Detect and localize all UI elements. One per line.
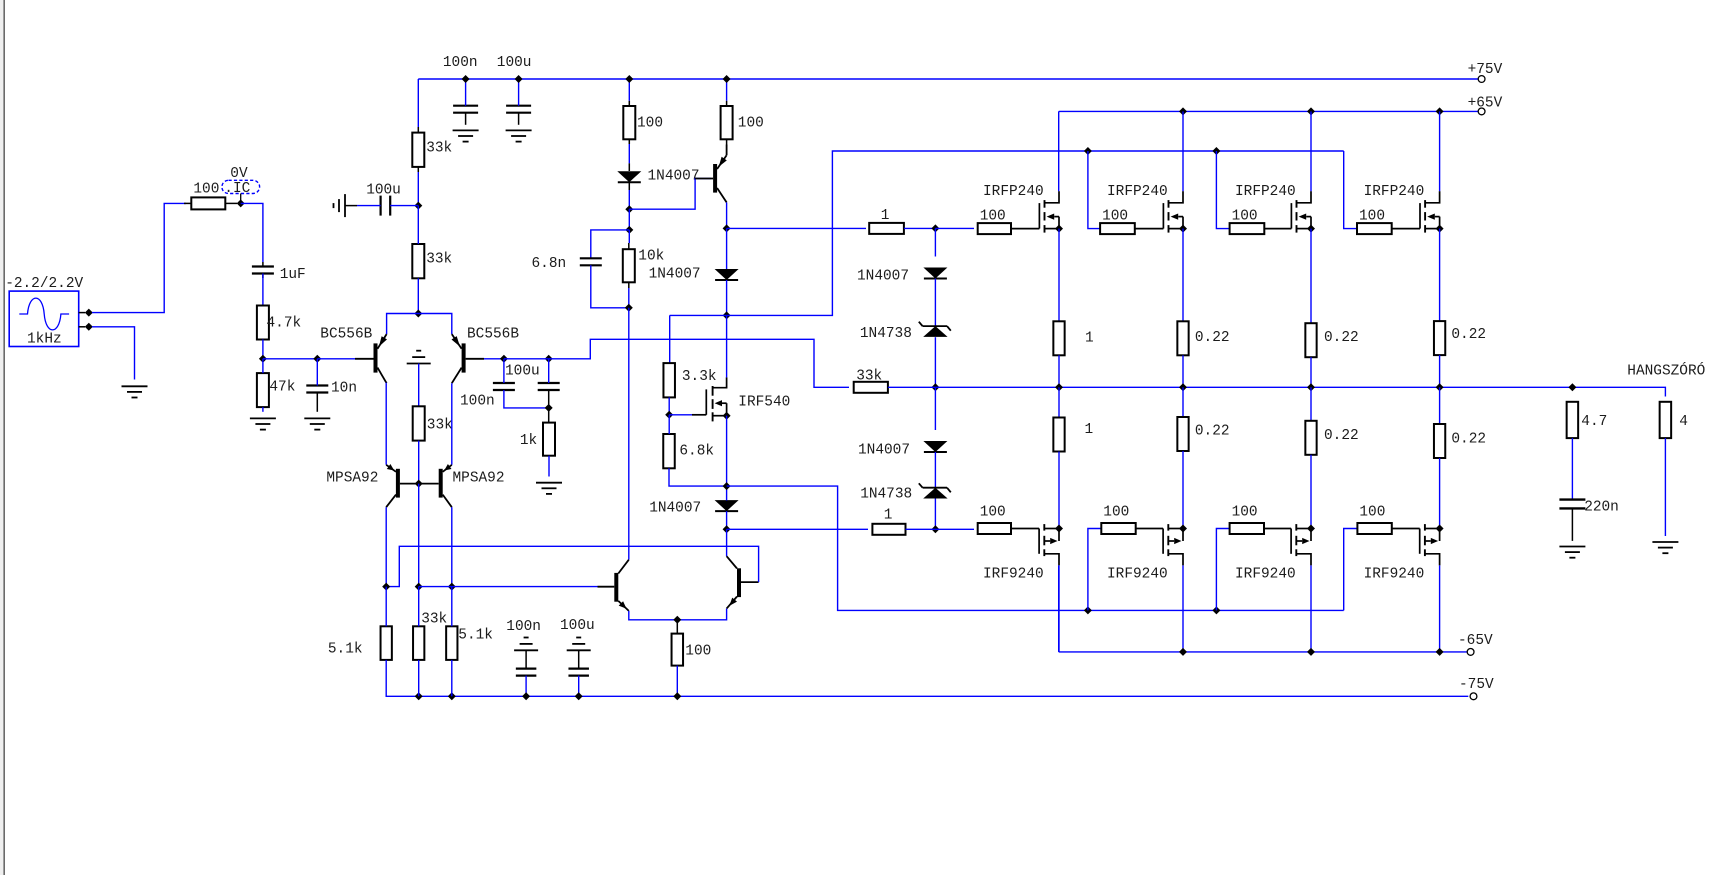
wire node down bbox=[628, 209, 630, 230]
capacitor 100n fb bbox=[538, 382, 560, 384]
capacitor 100n rail bbox=[453, 105, 478, 107]
resistor 4.7 bbox=[1567, 402, 1579, 438]
junction bbox=[665, 411, 673, 419]
wire source to res bbox=[1058, 229, 1060, 322]
transistor Q6 NPN left bbox=[614, 573, 618, 602]
resistor 0.22 source upper #3 bbox=[1305, 323, 1316, 357]
junction bbox=[1436, 648, 1444, 656]
junction bbox=[723, 75, 731, 83]
wire gate bias upper bbox=[1216, 151, 1229, 229]
wire string to 100 lower bbox=[935, 528, 974, 530]
wire base row to Q6 bbox=[419, 586, 598, 588]
svg-text:100: 100 bbox=[980, 209, 1006, 225]
transistor Q3 MPSA92 left bbox=[396, 469, 400, 498]
svg-text:100n: 100n bbox=[460, 393, 495, 409]
svg-text:IRFP240: IRFP240 bbox=[1235, 184, 1296, 200]
junction bbox=[625, 205, 633, 213]
svg-text:33k: 33k bbox=[856, 368, 882, 384]
transistor Q1 BC556B left bbox=[374, 343, 378, 372]
resistor 100 gate lower bbox=[1101, 523, 1135, 534]
resistor 100 a bbox=[623, 106, 635, 139]
svg-text:1: 1 bbox=[1085, 330, 1094, 346]
wire 5.1k drop bbox=[451, 660, 453, 696]
svg-text:.IC: .IC bbox=[224, 181, 250, 197]
wire 100 to -75 rail bbox=[676, 666, 678, 697]
junction bbox=[723, 412, 731, 420]
junction bbox=[414, 310, 422, 318]
svg-text:100: 100 bbox=[1232, 505, 1258, 521]
zener 1N4738 upper bbox=[923, 326, 947, 337]
svg-text:0.22: 0.22 bbox=[1195, 330, 1230, 346]
wire +65V drop bbox=[1310, 111, 1312, 191]
svg-text:6.8n: 6.8n bbox=[532, 256, 567, 272]
wire 33k drop bbox=[418, 660, 420, 696]
wire drain to -65V bbox=[1058, 565, 1060, 652]
junction bbox=[1307, 383, 1315, 391]
wire string seg2 bbox=[934, 279, 936, 327]
transistor U1 IRF540 bbox=[705, 389, 707, 414]
resistor 3.3k bbox=[663, 363, 675, 397]
svg-text:IRF9240: IRF9240 bbox=[1107, 567, 1168, 583]
transistor Q4 MPSA92 right bbox=[439, 469, 443, 498]
junction bbox=[931, 525, 939, 533]
junction bbox=[723, 224, 731, 232]
capacitor 100u fb bbox=[493, 382, 515, 384]
svg-text:0.22: 0.22 bbox=[1324, 330, 1359, 346]
junction bbox=[259, 355, 267, 363]
svg-text:0.22: 0.22 bbox=[1451, 431, 1486, 447]
wire 3.3k to gate node bbox=[668, 397, 670, 414]
ground sideways bbox=[344, 194, 346, 217]
mosfet IRF9240 #2 bbox=[1135, 528, 1163, 530]
svg-text:-75V: -75V bbox=[1459, 677, 1494, 693]
resistor 100 gate1 low bbox=[978, 523, 1011, 534]
junction bbox=[545, 355, 553, 363]
svg-text:4: 4 bbox=[1679, 414, 1688, 430]
wire node to fb bbox=[504, 358, 549, 360]
wire bias tap up bbox=[727, 151, 1344, 315]
svg-text:47k: 47k bbox=[269, 379, 295, 395]
svg-text:1kHz: 1kHz bbox=[27, 332, 62, 348]
svg-text:IRF9240: IRF9240 bbox=[1364, 567, 1425, 583]
svg-text:0.22: 0.22 bbox=[1324, 428, 1359, 444]
capacitor 220n bbox=[1559, 498, 1585, 500]
mosfet IRF9240 #1 bbox=[1011, 528, 1039, 530]
junction bbox=[415, 583, 423, 591]
wire +65V drop bbox=[1439, 111, 1441, 191]
wire drain to -65V bbox=[1439, 565, 1441, 652]
svg-text:3.3k: 3.3k bbox=[682, 369, 717, 385]
capacitor 100u bottom bbox=[576, 637, 581, 639]
svg-text:1N4007: 1N4007 bbox=[858, 443, 910, 459]
wire 10k to node bbox=[628, 288, 630, 308]
resistor 1k bbox=[543, 423, 555, 456]
svg-text:1N4738: 1N4738 bbox=[860, 326, 912, 342]
resistor 100 b bbox=[721, 106, 733, 139]
junction bbox=[414, 202, 422, 210]
wire gate bias lower bbox=[1344, 529, 1358, 611]
resistor 10k bbox=[623, 249, 635, 282]
junction bbox=[673, 692, 681, 700]
resistor 100 gate upper bbox=[1357, 223, 1392, 234]
svg-text:IRF9240: IRF9240 bbox=[983, 567, 1044, 583]
mosfet IRF9240 #4 bbox=[1392, 528, 1420, 530]
wire Q3 collector down bbox=[385, 507, 387, 586]
wire Q7 base loop bbox=[386, 546, 758, 586]
svg-text:100: 100 bbox=[980, 505, 1006, 521]
wire +65V rail bbox=[1059, 110, 1479, 112]
junction bbox=[1436, 107, 1444, 115]
wire rail to res low bbox=[1439, 387, 1441, 424]
wire base row to BC556B bbox=[317, 358, 355, 360]
resistor 33k mid bbox=[413, 406, 425, 440]
wire rail to 100 a bbox=[628, 79, 630, 101]
junction bbox=[448, 692, 456, 700]
svg-text:IRFP240: IRFP240 bbox=[1364, 184, 1425, 200]
resistor 5.1k right bbox=[446, 626, 457, 660]
svg-text:-65V: -65V bbox=[1458, 633, 1493, 649]
junction bbox=[625, 226, 633, 234]
diode 1N4007 string up bbox=[923, 268, 947, 279]
wire 47k to ground bbox=[262, 407, 264, 412]
junction bbox=[1084, 606, 1092, 614]
svg-text:100: 100 bbox=[738, 116, 764, 132]
capacitor 100n bottom bbox=[524, 637, 529, 639]
wire res low to mosfet bbox=[1058, 452, 1060, 529]
wire 100a to diode bbox=[628, 144, 630, 163]
resistor 0.22 source lower #4 bbox=[1434, 424, 1445, 458]
wire 1 to string lower bbox=[906, 528, 936, 530]
wire 100u to 1k node bbox=[504, 390, 549, 408]
voltage source V1 1kHz bbox=[9, 291, 79, 346]
wire drain to -65V bbox=[1310, 565, 1312, 652]
ground 10n bbox=[304, 417, 330, 419]
resistor 100 input bbox=[191, 197, 225, 209]
junction bbox=[575, 692, 583, 700]
junction bbox=[415, 480, 423, 488]
wire string seg4 bbox=[934, 387, 936, 430]
wire 10k node down to driver bbox=[628, 308, 630, 560]
wire VAS to 1 bbox=[727, 227, 866, 229]
resistor 33k lower bbox=[412, 244, 424, 278]
svg-text:100n: 100n bbox=[506, 619, 541, 635]
svg-text:BC556B: BC556B bbox=[467, 326, 519, 342]
svg-text:IRF540: IRF540 bbox=[738, 395, 790, 411]
junction bbox=[625, 304, 633, 312]
svg-text:100: 100 bbox=[1359, 505, 1385, 521]
wire +65V drop1 bbox=[1058, 111, 1060, 191]
wire string to 100 bbox=[935, 227, 974, 229]
junction bbox=[931, 224, 939, 232]
svg-text:100: 100 bbox=[1103, 505, 1129, 521]
svg-text:100: 100 bbox=[1102, 209, 1128, 225]
svg-text:100u: 100u bbox=[366, 182, 401, 198]
wire 33k to bases bbox=[418, 441, 420, 484]
svg-text:0.22: 0.22 bbox=[1195, 423, 1230, 439]
wire string seg5 bbox=[934, 452, 936, 488]
svg-text:4.7: 4.7 bbox=[1581, 414, 1607, 430]
junction bbox=[522, 692, 530, 700]
wire emitter bus bbox=[629, 609, 727, 620]
wire string seg3 bbox=[934, 337, 936, 387]
wire 33k to bias node bbox=[417, 172, 419, 206]
svg-text:MPSA92: MPSA92 bbox=[453, 470, 505, 486]
junction bbox=[625, 75, 633, 83]
wire +75V rail bbox=[418, 78, 1478, 80]
junction bbox=[1055, 383, 1063, 391]
wire feedback bbox=[549, 339, 849, 387]
wire 100 to gate1 bbox=[1010, 228, 1012, 230]
svg-text:33k: 33k bbox=[426, 141, 452, 157]
mosfet IRFP240 #2 bbox=[1162, 203, 1164, 229]
wire 6.8n top bbox=[591, 230, 630, 258]
mosfet IRFP240 #1 bbox=[1038, 203, 1040, 229]
terminal +65V bbox=[1478, 108, 1485, 115]
wire diode to node bbox=[628, 190, 630, 209]
svg-text:+65V: +65V bbox=[1468, 96, 1503, 112]
wire 3.3k drop bbox=[669, 315, 671, 363]
svg-text:-2.2/2.2V: -2.2/2.2V bbox=[5, 276, 83, 292]
svg-text:100: 100 bbox=[193, 181, 219, 197]
resistor 0.22 source upper #2 bbox=[1177, 321, 1188, 355]
capacitor 100u bias bbox=[380, 196, 382, 216]
resistor 33k upper bbox=[412, 133, 424, 167]
resistor 33k fb bbox=[854, 382, 888, 393]
terminal -65V bbox=[1467, 649, 1474, 656]
svg-text:MPSA92: MPSA92 bbox=[326, 470, 378, 486]
wire drain to -65V bbox=[1182, 565, 1184, 652]
resistor 100 gate lower bbox=[1357, 523, 1391, 534]
wire rail to res low bbox=[1182, 387, 1184, 417]
wire bias tap down bbox=[727, 486, 1344, 610]
wire 4.7 to 220n bbox=[1571, 438, 1573, 500]
wire 1 to string bbox=[904, 227, 936, 229]
wire +75V rail left drop bbox=[417, 79, 419, 127]
wire gate bias upper bbox=[1088, 151, 1100, 229]
svg-text:1uF: 1uF bbox=[280, 267, 306, 283]
wire string seg6 bbox=[934, 499, 936, 530]
wire rail to 100b bbox=[726, 79, 728, 101]
wire 1uF to 4.7k bbox=[262, 274, 264, 306]
junction bbox=[1436, 383, 1444, 391]
wire res to rail bbox=[1058, 355, 1060, 387]
wire Q2 collector down bbox=[451, 383, 453, 465]
wire input node down bbox=[241, 203, 263, 262]
ground 4 bbox=[1652, 541, 1678, 543]
wire diode b to node bbox=[726, 280, 728, 315]
wire res to rail bbox=[1310, 357, 1312, 387]
ground 100n rail bbox=[453, 129, 479, 131]
wire res to rail bbox=[1182, 355, 1184, 387]
junction bbox=[673, 616, 681, 624]
svg-text:1N4007: 1N4007 bbox=[648, 168, 700, 184]
resistor 33k bottom bbox=[413, 626, 424, 660]
wire 6.8n bottom bbox=[591, 265, 629, 308]
terminal +75V bbox=[1478, 76, 1485, 83]
wire 3.3k top bbox=[670, 314, 727, 316]
resistor 1 source lower #1 bbox=[1053, 418, 1064, 452]
resistor 0.22 source lower #3 bbox=[1305, 421, 1316, 455]
wire res low to mosfet bbox=[1439, 458, 1441, 529]
ground source bbox=[122, 385, 148, 387]
junction bbox=[237, 199, 245, 207]
resistor 100 driver bbox=[672, 634, 684, 666]
svg-text:100: 100 bbox=[637, 116, 663, 132]
wire node to 1 lower bbox=[727, 528, 868, 530]
ground 220n bbox=[1559, 546, 1585, 548]
resistor 1 source upper #1 bbox=[1053, 321, 1064, 355]
svg-text:100u: 100u bbox=[497, 55, 532, 71]
svg-text:100n: 100n bbox=[443, 55, 478, 71]
ground 47k bbox=[250, 417, 276, 419]
wire 4 to ground bbox=[1664, 438, 1666, 536]
wire diode c to node bbox=[726, 511, 728, 529]
svg-text:100u: 100u bbox=[560, 618, 595, 634]
wire 1k to ground bbox=[548, 456, 550, 477]
resistor 47k bbox=[257, 373, 269, 407]
resistor 100 gate lower bbox=[1230, 523, 1264, 534]
capacitor 100u rail bbox=[506, 105, 531, 107]
wire -65V rail bbox=[1059, 651, 1468, 653]
wire gate bias upper bbox=[1344, 151, 1357, 229]
ground 100u rail bbox=[506, 129, 532, 131]
junction bbox=[1212, 147, 1220, 155]
wire string seg1 bbox=[934, 228, 936, 256]
wire Q1 collector down bbox=[385, 383, 387, 465]
junction bbox=[723, 482, 731, 490]
wire 4.7k to node bbox=[262, 340, 264, 359]
wire node to PNP base bbox=[629, 179, 711, 210]
transistor Q2 BC556B right bbox=[462, 343, 466, 372]
wire gate lead bbox=[669, 414, 692, 416]
junction bbox=[462, 75, 470, 83]
ground 1k bbox=[536, 482, 562, 484]
junction bbox=[1307, 648, 1315, 656]
svg-text:IRF9240: IRF9240 bbox=[1235, 567, 1296, 583]
svg-text:1N4007: 1N4007 bbox=[649, 500, 701, 516]
diode 1N4007 c bbox=[715, 500, 739, 511]
wire +65V drop bbox=[1182, 111, 1184, 191]
wire source- to ground bbox=[92, 327, 135, 380]
terminal -75V bbox=[1470, 693, 1477, 700]
junction bbox=[545, 404, 553, 412]
junction bbox=[723, 525, 731, 533]
svg-text:4.7k: 4.7k bbox=[267, 315, 302, 331]
wire -65V left drop bbox=[1058, 565, 1060, 652]
svg-text:220n: 220n bbox=[1584, 500, 1619, 516]
resistor 5.1k left bbox=[381, 626, 392, 660]
wire source to res bbox=[1310, 229, 1312, 324]
junction bbox=[1212, 606, 1220, 614]
wire gnd to 33k bbox=[418, 364, 420, 407]
wire node to drivers bbox=[726, 529, 728, 556]
svg-text:1: 1 bbox=[1085, 422, 1094, 438]
svg-text:33k: 33k bbox=[421, 612, 447, 628]
junction bbox=[1179, 648, 1187, 656]
wire -75V rail bbox=[386, 660, 1468, 696]
resistor 0.22 source lower #2 bbox=[1177, 417, 1188, 451]
wire res low to mosfet bbox=[1182, 451, 1184, 529]
wire output rail bbox=[935, 387, 1665, 396]
junction bbox=[313, 355, 321, 363]
wire cap to node bbox=[390, 205, 418, 207]
wire bases down bbox=[418, 484, 420, 587]
svg-text:HANGSZÓRÓ: HANGSZÓRÓ bbox=[1627, 362, 1705, 380]
svg-text:1: 1 bbox=[881, 208, 890, 224]
wire gate bias lower bbox=[1088, 529, 1101, 611]
junction bbox=[723, 311, 731, 319]
diode 1N4007 a bbox=[617, 171, 641, 182]
junction bbox=[1568, 383, 1576, 391]
junction bbox=[1084, 147, 1092, 155]
wire 33k fb right bbox=[888, 386, 936, 388]
svg-text:BC556B: BC556B bbox=[320, 326, 372, 342]
junction bbox=[1307, 107, 1315, 115]
wire IRF540 drain up bbox=[726, 315, 728, 377]
resistor 100 gate upper bbox=[1230, 223, 1265, 234]
junction bbox=[1179, 107, 1187, 115]
wire Q4 collector down bbox=[451, 507, 453, 586]
svg-text:+75V: +75V bbox=[1468, 62, 1503, 78]
svg-text:5.1k: 5.1k bbox=[458, 628, 493, 644]
capacitor 1uF bbox=[252, 265, 274, 267]
wire source+ to input bbox=[92, 203, 186, 312]
junction bbox=[1179, 383, 1187, 391]
svg-text:0.22: 0.22 bbox=[1451, 327, 1486, 343]
resistor 6.8k bbox=[663, 434, 675, 468]
transistor Q5 PNP VAS bbox=[713, 164, 717, 193]
svg-text:6.8k: 6.8k bbox=[679, 443, 714, 459]
svg-text:1N4007: 1N4007 bbox=[857, 269, 909, 285]
resistor 100 gate upper bbox=[1100, 223, 1135, 234]
wire source to res bbox=[1182, 229, 1184, 322]
diode 1N4007 string low bbox=[923, 441, 947, 452]
mosfet IRFP240 #3 bbox=[1290, 203, 1292, 229]
svg-text:1k: 1k bbox=[520, 433, 537, 449]
svg-text:IRFP240: IRFP240 bbox=[1107, 184, 1168, 200]
resistor 0.22 source upper #4 bbox=[1434, 321, 1445, 355]
svg-text:100: 100 bbox=[1359, 209, 1385, 225]
wire gate bias lower bbox=[1216, 529, 1229, 611]
svg-text:10n: 10n bbox=[331, 381, 357, 397]
svg-text:1: 1 bbox=[884, 508, 893, 524]
.IC flag bbox=[222, 180, 260, 193]
junction bbox=[382, 583, 390, 591]
mosfet IRFP240 #4 bbox=[1419, 203, 1421, 229]
svg-text:10k: 10k bbox=[638, 249, 664, 265]
junction bbox=[515, 75, 523, 83]
capacitor 10n bbox=[306, 384, 328, 386]
svg-text:IRFP240: IRFP240 bbox=[983, 184, 1044, 200]
wire Q2 base to node bbox=[484, 358, 504, 360]
resistor 4.7k bbox=[257, 306, 269, 340]
svg-text:100u: 100u bbox=[505, 364, 540, 380]
wire source to res bbox=[1439, 229, 1441, 322]
svg-text:100: 100 bbox=[685, 643, 711, 659]
wire rail to res low bbox=[1058, 387, 1060, 417]
wire 6.8k bottom bbox=[669, 468, 727, 486]
transistor Q7 NPN right bbox=[737, 568, 741, 597]
svg-text:33k: 33k bbox=[427, 417, 453, 433]
resistor 4 bbox=[1660, 402, 1672, 438]
wire rail to res low bbox=[1310, 387, 1312, 421]
wire res low to mosfet bbox=[1310, 455, 1312, 529]
wire res to rail bbox=[1439, 355, 1441, 387]
svg-text:5.1k: 5.1k bbox=[328, 641, 363, 657]
resistor 100 gate1 bbox=[978, 223, 1011, 234]
svg-text:100: 100 bbox=[1232, 209, 1258, 225]
ground inverted mid bbox=[416, 350, 421, 352]
